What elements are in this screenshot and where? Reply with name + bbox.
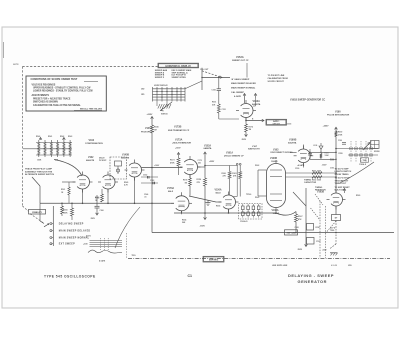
svg-text:12AU5: 12AU5 xyxy=(273,212,280,215)
svg-text:CAL OUT: CAL OUT xyxy=(200,68,209,71)
label V160B xyxy=(270,158,278,163)
svg-text:STABILITY: STABILITY xyxy=(32,211,43,214)
wire dashed panel boundary left xyxy=(22,67,24,207)
resistor R191 xyxy=(320,152,330,159)
component box C197 xyxy=(307,238,321,245)
label V161 HOLD SWEEP CF xyxy=(224,151,244,157)
svg-text:CAPACITOR: CAPACITOR xyxy=(304,181,317,184)
label minus A GATE xyxy=(297,164,305,167)
svg-text:TRIGGER CKT: TRIGGER CKT xyxy=(335,180,350,182)
svg-text:C160A-D: C160A-D xyxy=(240,220,248,223)
svg-text:-150V: -150V xyxy=(297,249,303,251)
svg-text:C168: C168 xyxy=(295,227,299,229)
label V152A SWEEP OUT CF xyxy=(232,56,249,78)
resistor R167 sawtooth column xyxy=(295,212,303,233)
svg-text:-150V: -150V xyxy=(322,164,328,166)
svg-text:D163: D163 xyxy=(255,197,259,199)
svg-text:MAIN SWEEP DELAYED: MAIN SWEEP DELAYED xyxy=(231,82,256,85)
node NOTE label at boundary corner xyxy=(13,64,19,66)
capacitor C150 xyxy=(212,77,222,104)
svg-text:TRIG: TRIG xyxy=(132,255,137,257)
resistor R166 column xyxy=(61,203,73,217)
wire dashed drop 1 xyxy=(311,201,321,258)
svg-text:R197: R197 xyxy=(316,227,321,229)
wire dashed to cal out xyxy=(200,68,222,78)
label V162 COMPENSATION xyxy=(85,139,103,145)
svg-text:SW160: SW160 xyxy=(161,114,168,116)
title TYPE 545 OSCILLOSCOPE xyxy=(44,274,96,278)
svg-text:C162: C162 xyxy=(143,174,147,176)
note to sweep reset xyxy=(335,187,351,192)
svg-text:C146: C146 xyxy=(144,193,148,196)
svg-text:SW180: SW180 xyxy=(374,151,380,153)
wire plate coupling V145B to V173B xyxy=(142,167,183,169)
waveform sketches xyxy=(86,233,136,263)
svg-text:C190: C190 xyxy=(338,140,342,142)
node A SWP arrow xyxy=(253,94,257,107)
svg-text:GATE 1: GATE 1 xyxy=(273,120,280,123)
svg-text:V190B: V190B xyxy=(289,138,297,141)
label V173A MULTIVIBRATOR xyxy=(172,138,191,144)
svg-text:C1: C1 xyxy=(188,274,193,278)
svg-text:R146: R146 xyxy=(154,126,159,129)
wire V150A stub xyxy=(228,209,230,213)
svg-text:SWP SAW: SWP SAW xyxy=(286,232,295,235)
svg-text:SWEEP OUT CF: SWEEP OUT CF xyxy=(232,60,249,62)
rotary switch SW160 wafer xyxy=(141,81,202,116)
label V173B MULTIVIBRATOR xyxy=(168,126,190,132)
svg-text:PRESET FOR + ADJUSTED TRACE: PRESET FOR + ADJUSTED TRACE xyxy=(33,97,71,100)
wire V173B right stub xyxy=(198,166,206,168)
svg-text:R161: R161 xyxy=(232,173,236,175)
svg-text:V152A: V152A xyxy=(236,56,244,59)
svg-text:V162: V162 xyxy=(88,157,94,159)
label minus150 right xyxy=(322,164,328,166)
tube V162B xyxy=(98,172,118,193)
svg-text:A GATE: A GATE xyxy=(234,95,242,98)
svg-text:C190: C190 xyxy=(295,168,299,170)
label V160A xyxy=(272,209,280,215)
svg-text:+225V: +225V xyxy=(209,161,215,163)
tube V193A xyxy=(236,100,256,121)
svg-text:V145B: V145B xyxy=(122,153,129,156)
wire arc from divider to V162 xyxy=(54,160,82,177)
svg-text:+100V: +100V xyxy=(175,147,181,149)
svg-text:PULSE INTEGRATOR: PULSE INTEGRATOR xyxy=(327,114,350,117)
timing switch SW180 contact grid xyxy=(335,141,379,184)
wire lower cathode bus xyxy=(174,212,277,214)
svg-text:C180A-E: C180A-E xyxy=(359,163,367,166)
tube V160 envelope xyxy=(267,160,286,213)
label V193A 6AN8 xyxy=(252,100,261,106)
svg-text:R142: R142 xyxy=(60,135,64,138)
svg-text:R141: R141 xyxy=(48,135,52,138)
svg-text:6DL8: 6DL8 xyxy=(216,192,222,194)
wire plus350 column xyxy=(323,126,343,193)
svg-text:R162 100K: R162 100K xyxy=(312,179,322,181)
svg-text:C166: C166 xyxy=(100,210,104,212)
switch label box HORIZONTAL DISPLAY xyxy=(158,63,199,68)
wire dashed panel boundary diagonal to stability xyxy=(23,206,45,223)
resistor R160 xyxy=(222,166,232,196)
svg-text:LOWER READINGS - STABILITY CON: LOWER READINGS - STABILITY CONTROL FULLY… xyxy=(33,90,94,93)
svg-text:.01: .01 xyxy=(144,197,147,199)
svg-text:-150V: -150V xyxy=(241,139,247,141)
capacitor network right of V145B xyxy=(141,174,158,184)
label date code xyxy=(331,264,353,267)
svg-text:MAIN SWEEP DELAYED: MAIN SWEEP DELAYED xyxy=(59,230,91,233)
switch mode labels xyxy=(59,223,91,246)
net box STABILITY xyxy=(29,209,46,214)
svg-text:V150A: V150A xyxy=(215,189,222,192)
svg-text:DELAYING - SWEEP: DELAYING - SWEEP xyxy=(288,273,334,278)
svg-text:DISCONNECT DIODES: DISCONNECT DIODES xyxy=(271,152,294,154)
note to delayed stop trigger xyxy=(335,178,351,185)
svg-text:R167: R167 xyxy=(298,216,303,218)
svg-text:1M: 1M xyxy=(249,129,252,131)
svg-text:A GATE: A GATE xyxy=(99,260,106,263)
wire V160 left stubs xyxy=(258,170,267,196)
svg-text:R174: R174 xyxy=(183,179,187,182)
label V162 6AU6 xyxy=(86,157,95,162)
svg-text:SWP/TRIG: SWP/TRIG xyxy=(209,259,219,261)
svg-text:100K: 100K xyxy=(37,160,42,162)
svg-text:V173A: V173A xyxy=(167,187,174,190)
resistor R161 left of V162A xyxy=(61,182,76,203)
wire racetrack to V190B xyxy=(290,151,297,153)
svg-text:R143: R143 xyxy=(68,135,72,138)
label TIMING CAPACITOR xyxy=(304,179,317,184)
capacitor bank C160 xyxy=(239,204,263,224)
svg-text:TIMING CKT: TIMING CKT xyxy=(335,183,347,185)
wire curve to sawtooth node xyxy=(276,212,296,216)
wire V190B plate row xyxy=(309,152,336,153)
wire dashed panel boundary top xyxy=(23,66,158,68)
svg-text:+100V: +100V xyxy=(154,165,160,167)
resistor R151 grid leak xyxy=(212,102,239,120)
svg-text:V190: V190 xyxy=(335,110,341,113)
svg-text:R195: R195 xyxy=(339,153,343,155)
wire plate row to columns xyxy=(204,165,237,167)
svg-text:6AL5: 6AL5 xyxy=(168,190,174,193)
net box SAWTOOTH xyxy=(285,230,298,235)
note from pilot lamp xyxy=(25,168,55,177)
label delayed trig xyxy=(330,228,336,233)
svg-text:6AU8TA: 6AU8TA xyxy=(288,142,297,145)
tube V145B xyxy=(125,160,145,181)
svg-text:CALIBRATOR FROM: CALIBRATOR FROM xyxy=(268,77,289,80)
label L190 xyxy=(313,145,317,147)
rotary switch contacts sweep mode xyxy=(40,203,53,246)
labels left of plus350 column xyxy=(330,159,334,170)
scan artifact line left edge xyxy=(3,42,5,58)
svg-text:CAL SWEEP: CAL SWEEP xyxy=(231,91,245,94)
svg-text:R160: R160 xyxy=(222,173,226,175)
svg-text:TRIG: TRIG xyxy=(330,230,335,232)
svg-text:V167: V167 xyxy=(252,146,258,148)
svg-text:+MULTIVIBRATOR: +MULTIVIBRATOR xyxy=(172,142,191,145)
svg-text:TIMING: TIMING xyxy=(315,187,323,189)
svg-text:(HOLD SWEEP) CF: (HOLD SWEEP) CF xyxy=(224,156,244,158)
label V145B 6AU6 xyxy=(121,153,130,159)
title DELAYING SWEEP xyxy=(288,273,334,284)
svg-text:.001: .001 xyxy=(198,163,202,165)
svg-text:TO PIN EXT LINE: TO PIN EXT LINE xyxy=(268,75,285,77)
svg-text:R161: R161 xyxy=(61,189,65,191)
svg-text:CRT CKT: CRT CKT xyxy=(273,123,280,125)
resistor under V162B xyxy=(95,189,103,203)
svg-text:DLY'D: DLY'D xyxy=(86,236,92,238)
net box GATE 1 xyxy=(266,119,287,125)
svg-text:TO SWP RESET: TO SWP RESET xyxy=(335,187,351,189)
svg-text:CALIBRATOR VOLTAGE ACTIVE NO S: CALIBRATOR VOLTAGE ACTIVE NO SIGNAL xyxy=(33,104,81,107)
svg-text:V160B: V160B xyxy=(270,158,277,160)
svg-text:UPPER READINGS - STABILITY CON: UPPER READINGS - STABILITY CONTROL FULLY… xyxy=(33,87,91,90)
wire cal bus corner xyxy=(201,68,230,90)
svg-text:MAIN SWEEP NORMAL: MAIN SWEEP NORMAL xyxy=(231,87,256,90)
svg-text:6AB8TA: 6AB8TA xyxy=(204,147,212,150)
svg-text:V193A: V193A xyxy=(253,100,261,103)
wire sawtooth bus xyxy=(152,203,394,233)
svg-text:TYPE 545 OSCILLOSCOPE: TYPE 545 OSCILLOSCOPE xyxy=(44,274,96,278)
svg-text:MULTIVIBRATOR CF: MULTIVIBRATOR CF xyxy=(168,129,190,132)
node A GATE arrow xyxy=(234,94,246,104)
svg-text:SWITCHES AS SHOWN: SWITCHES AS SHOWN xyxy=(33,101,58,104)
svg-text:100K: 100K xyxy=(63,213,68,215)
svg-text:SW180 TIMING: SW180 TIMING xyxy=(335,174,350,176)
svg-text:LINE SWPS LINE: LINE SWPS LINE xyxy=(272,265,288,267)
note box CONDITIONS OF SCOPE UNDER TEST xyxy=(26,76,106,111)
label V161B SWEEP-GENERATOR xyxy=(290,99,325,102)
svg-text:+225V: +225V xyxy=(147,114,154,116)
svg-text:4-10-58: 4-10-58 xyxy=(331,264,337,267)
label V150A 6DL8 xyxy=(215,189,222,195)
svg-text:LENGTH SWITCH: LENGTH SWITCH xyxy=(335,171,352,173)
svg-text:470K: 470K xyxy=(170,161,175,164)
wire V160 plate rows xyxy=(286,171,337,182)
svg-text:C150: C150 xyxy=(212,90,216,92)
svg-text:1M: 1M xyxy=(154,130,157,132)
svg-text:C193: C193 xyxy=(287,124,291,126)
svg-text:R156: R156 xyxy=(197,179,202,181)
tube V190B xyxy=(294,146,314,167)
label TIMING RESISTOR xyxy=(315,187,326,192)
node gate arrow right xyxy=(343,189,346,194)
tube V150A xyxy=(219,192,239,213)
svg-text:R145: R145 xyxy=(124,181,128,184)
svg-text:HORIZONTAL DISPLAY: HORIZONTAL DISPLAY xyxy=(165,65,191,68)
svg-text:EXT SWEEP: EXT SWEEP xyxy=(59,244,75,246)
dashed box delay pickoff xyxy=(99,157,127,179)
svg-text:V173B: V173B xyxy=(174,126,182,129)
tube V173B xyxy=(180,156,201,178)
label line swps line xyxy=(272,265,288,267)
svg-text:SEE ALL TIME VALUES: SEE ALL TIME VALUES xyxy=(80,108,103,111)
tube V162A xyxy=(73,172,93,193)
svg-text:HORIZ DISPLAY: HORIZ DISPLAY xyxy=(154,84,169,87)
svg-text:SWEEP X: SWEEP X xyxy=(155,77,165,79)
svg-text:C191: C191 xyxy=(330,160,334,162)
svg-text:-A GATE: -A GATE xyxy=(297,164,305,167)
wire chassis dash-dot line xyxy=(128,258,390,260)
wire V173A stub xyxy=(181,211,183,213)
svg-text:V162: V162 xyxy=(89,139,95,142)
component box R197 xyxy=(307,224,321,231)
label V193B xyxy=(317,191,324,193)
svg-text:C193: C193 xyxy=(330,168,334,170)
wire dashed below V193B xyxy=(330,221,336,249)
label V163 DISCONNECT DIODES xyxy=(271,149,294,154)
wire V190B lower row xyxy=(310,159,337,160)
label C1 xyxy=(188,274,193,278)
label V173A 6AL5 xyxy=(167,187,174,193)
svg-text:PICKOFF: PICKOFF xyxy=(99,160,106,162)
svg-text:R173: R173 xyxy=(170,159,175,161)
wire diagonal to waveform xyxy=(115,207,140,248)
svg-text:ADJUSTMENTS: ADJUSTMENTS xyxy=(32,94,50,97)
tube V193B xyxy=(327,190,346,210)
diode D190 xyxy=(319,143,323,152)
svg-text:TIMING: TIMING xyxy=(304,179,312,181)
svg-text:D162: D162 xyxy=(255,165,259,167)
svg-text:V193B: V193B xyxy=(317,191,324,193)
ground symbol xyxy=(322,250,338,256)
svg-text:TRACE FROM PILOT LAMP: TRACE FROM PILOT LAMP xyxy=(25,168,53,171)
svg-text:R180: R180 xyxy=(356,195,360,197)
label C190 right of column xyxy=(338,140,343,155)
svg-text:R191: R191 xyxy=(325,152,329,154)
scatter labels xyxy=(95,124,360,225)
svg-text:R190: R190 xyxy=(338,132,342,134)
svg-text:V152A: V152A xyxy=(204,144,211,147)
svg-text:6AN8TA: 6AN8TA xyxy=(252,103,261,106)
svg-text:C151: C151 xyxy=(222,109,226,111)
note to pin ext line xyxy=(268,75,289,83)
wire main cathode bus xyxy=(40,178,174,205)
wire pilot to main bus xyxy=(32,177,40,203)
switch position list xyxy=(231,78,256,94)
svg-text:V160A: V160A xyxy=(272,209,279,212)
svg-text:R161 100K: R161 100K xyxy=(312,171,322,173)
svg-text:SCOPE CIRCUIT: SCOPE CIRCUIT xyxy=(268,81,285,83)
svg-text:CONDITIONS OF SCOPE UNDER TEST: CONDITIONS OF SCOPE UNDER TEST xyxy=(31,77,78,81)
svg-text:V173A: V173A xyxy=(175,138,183,141)
resistor R161 xyxy=(232,163,241,196)
svg-text:TO DLY'D STOP: TO DLY'D STOP xyxy=(335,178,351,180)
svg-text:-150V: -150V xyxy=(90,218,96,220)
svg-text:NOTE: NOTE xyxy=(13,64,19,66)
note to delayed sweep length xyxy=(335,168,352,175)
resistor divider network R140-R143 xyxy=(23,135,72,162)
svg-text:R154: R154 xyxy=(182,219,186,222)
resistor R151 column xyxy=(197,152,216,213)
wire minus150 under V162A xyxy=(90,195,104,220)
wire V193A plate to gate box xyxy=(246,118,264,122)
svg-text:270K: 270K xyxy=(338,134,343,136)
wire dashed drop 2 xyxy=(315,194,336,258)
label V190B 6AU8 xyxy=(288,138,297,144)
label V145A PICKOFF CF xyxy=(141,127,155,133)
capacitor C192 xyxy=(308,149,312,159)
ground symbol at V150A cathode xyxy=(206,200,211,206)
resistor R173 xyxy=(170,147,181,175)
svg-text:COMPENSATION: COMPENSATION xyxy=(85,142,103,145)
svg-text:SAWTOOTH: SAWTOOTH xyxy=(248,148,260,151)
svg-text:R151: R151 xyxy=(212,102,216,104)
svg-text:'A' GANG SWEEP: 'A' GANG SWEEP xyxy=(231,78,250,81)
resistor R172 xyxy=(241,120,253,142)
wire V173A plate to V150A grid diagonal xyxy=(189,196,222,202)
wire minus150 below lower bus xyxy=(200,213,207,228)
resistor R146 supply column xyxy=(147,114,161,204)
svg-text:V163: V163 xyxy=(273,149,279,151)
svg-text:6AU6TB: 6AU6TB xyxy=(86,159,95,162)
svg-text:12AU5: 12AU5 xyxy=(271,160,278,163)
svg-text:R172: R172 xyxy=(249,126,254,128)
svg-text:TO DLY'D SWP: TO DLY'D SWP xyxy=(335,168,350,170)
svg-text:TP160: TP160 xyxy=(246,194,251,196)
svg-text:-150V: -150V xyxy=(200,226,206,228)
svg-text:DELAYING SWEEP: DELAYING SWEEP xyxy=(59,223,84,226)
label V152A 6AB8TA xyxy=(204,144,212,150)
svg-text:VOLTAGE READINGS: VOLTAGE READINGS xyxy=(32,84,56,87)
svg-text:ALTERNATE SWEEP SWITCH: ALTERNATE SWEEP SWITCH xyxy=(25,173,55,176)
resistor R165 column xyxy=(63,203,74,220)
svg-text:ASSEMBLY THROUGH THE: ASSEMBLY THROUGH THE xyxy=(25,170,53,173)
wire V173B to V173A xyxy=(183,175,191,196)
wire V190B top stub xyxy=(302,145,304,168)
svg-text:R140: R140 xyxy=(36,135,40,138)
tube V173A xyxy=(171,192,192,214)
svg-text:GENERATOR: GENERATOR xyxy=(298,279,327,284)
net box below V193B xyxy=(332,206,341,221)
wire vertical right sawtooth xyxy=(293,188,307,251)
svg-text:R155: R155 xyxy=(216,206,220,208)
net box on chassis line xyxy=(203,256,224,262)
label V190 PULSE INTEGRATOR xyxy=(327,110,350,116)
svg-text:V161A: V161A xyxy=(226,151,233,154)
svg-text:+350V: +350V xyxy=(323,126,330,128)
label V167 SAWTOOTH SWING xyxy=(248,146,260,151)
svg-text:V161B SWEEP-GENERATOR CC: V161B SWEEP-GENERATOR CC xyxy=(290,99,325,102)
svg-text:L190: L190 xyxy=(313,145,317,147)
switch position table under HORIZONTAL DISPLAY xyxy=(155,69,192,79)
svg-text:SWEEP INTEN: SWEEP INTEN xyxy=(172,77,187,79)
